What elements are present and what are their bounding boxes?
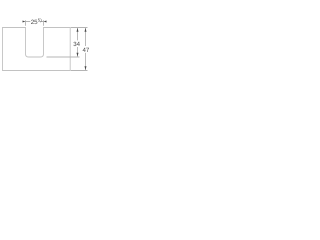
svg-text:34: 34 bbox=[73, 41, 80, 48]
svg-text:47: 47 bbox=[83, 47, 90, 54]
svg-text:5): 5) bbox=[38, 17, 42, 22]
